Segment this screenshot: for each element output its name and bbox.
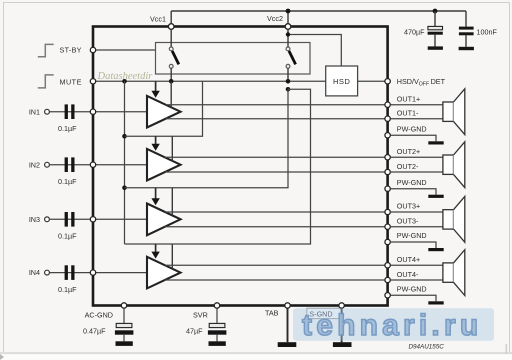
node junction rail / switch1 — [169, 79, 174, 84]
svg-text:D94AU155C: D94AU155C — [409, 344, 445, 351]
node input ST-BY step waveform — [38, 44, 54, 56]
wire OUT4- line — [165, 279, 385, 281]
wire PW-GND 2 to ground — [391, 189, 437, 195]
svg-text:OUT4+: OUT4+ — [397, 255, 420, 264]
svg-text:PW-GND: PW-GND — [397, 125, 427, 134]
wire mute chain vertical — [124, 81, 126, 244]
wire PW-GND 3 to ground — [391, 242, 437, 248]
switch SW1 from Vcc1 — [169, 29, 179, 81]
switch box (st-by switches) — [156, 43, 311, 75]
svg-text:IN4: IN4 — [29, 268, 40, 277]
wire OUT3- line — [165, 226, 385, 228]
capacitor 47uF on SVR — [186, 308, 226, 341]
node junction second branch — [286, 87, 291, 92]
wire ch2 feeder — [125, 81, 203, 136]
capacitor 0.1uF input C4 — [58, 265, 77, 294]
capacitor 0.1uF input C3 — [58, 212, 77, 241]
wire bias into A3 — [171, 188, 173, 216]
wire mute arrow into A2 — [155, 136, 157, 144]
svg-text:47µF: 47µF — [186, 327, 203, 336]
wire speaker 3 - — [391, 226, 443, 228]
wire Vcc2 riser — [287, 11, 289, 24]
svg-text:tehnari.ru: tehnari.ru — [302, 309, 482, 342]
wire mute arrow into A1 — [155, 81, 157, 91]
svg-text:OUT1+: OUT1+ — [397, 94, 420, 103]
wire IN2 input — [50, 164, 147, 166]
ground S-GND — [333, 342, 352, 347]
svg-text:OUT3+: OUT3+ — [397, 202, 420, 211]
svg-text:100nF: 100nF — [477, 27, 498, 36]
wire OUT4+ line — [165, 264, 385, 266]
wire TAB to ground — [287, 308, 289, 342]
wire speaker 4 + — [391, 264, 443, 266]
speaker LS1 — [443, 89, 465, 135]
wire OUT1+ line — [166, 104, 385, 106]
speaker LS3 — [443, 196, 465, 242]
wire bias into A4 — [171, 244, 173, 269]
wire speaker 2 + — [391, 156, 443, 158]
HSD block — [326, 66, 358, 96]
ground under 470uF — [428, 46, 443, 49]
ground TAB — [278, 342, 297, 347]
speaker LS4 — [443, 250, 465, 296]
svg-text:OUT4-: OUT4- — [397, 270, 419, 279]
svg-text:0.47µF: 0.47µF — [83, 327, 106, 336]
capacitor 470uF supply electrolytic — [404, 11, 443, 46]
wire IN1 input — [50, 111, 147, 113]
svg-text:OUT1-: OUT1- — [397, 109, 419, 118]
node junction mute rail / mute chain — [122, 79, 127, 84]
wire OUT2- line — [165, 171, 385, 173]
node junction mute chain ch2 — [122, 134, 127, 139]
wire ST-BY to switch box — [96, 49, 156, 51]
svg-text:Datasheetdir: Datasheetdir — [97, 71, 154, 82]
wire OUT3+ line — [165, 211, 385, 213]
node pin IN2 on IC — [90, 162, 95, 167]
switch SW2 from Vcc2 — [286, 29, 296, 81]
wire speaker 3 + — [391, 211, 443, 213]
svg-text:IN3: IN3 — [29, 215, 40, 224]
svg-text:PW-GND: PW-GND — [397, 285, 427, 294]
wire speaker 1 - — [391, 118, 443, 120]
svg-text:HSD: HSD — [333, 77, 350, 86]
wire HSD to pin — [358, 80, 385, 82]
node pin IN3 on IC — [90, 217, 95, 222]
wire top Vcc rail — [171, 10, 466, 12]
node pin IN4 on IC — [90, 270, 95, 275]
svg-text:Vcc1: Vcc1 — [150, 15, 166, 24]
wire speaker 2 - — [391, 171, 443, 173]
wire PW-GND 4 to ground — [391, 295, 437, 301]
node input MUTE step waveform — [38, 75, 54, 88]
wire OUT2+ line — [165, 156, 385, 158]
capacitor 0.1uF input C1 — [58, 104, 77, 133]
wire mute arrow into A4 — [155, 244, 157, 252]
ground under 47uF — [209, 341, 226, 346]
svg-text:0.1µF: 0.1µF — [58, 232, 77, 241]
svg-text:470µF: 470µF — [404, 27, 425, 36]
op-amp A4 power amplifier — [147, 257, 181, 289]
op-amp A3 power amplifier — [147, 204, 181, 236]
svg-text:AC-GND: AC-GND — [85, 310, 113, 319]
svg-text:PW-GND: PW-GND — [397, 178, 427, 187]
svg-text:IN2: IN2 — [29, 160, 40, 169]
node junction rail / switch2 — [286, 79, 291, 84]
wire ch3 feeder — [125, 89, 289, 188]
wire MUTE rail to HSD — [96, 80, 326, 82]
node pin S-GND — [307, 308, 342, 318]
wire bias into A1 — [170, 81, 172, 107]
ground under 100nF — [459, 47, 474, 50]
wire OUT1- line — [166, 118, 385, 120]
IC body TDA7384A outline — [93, 27, 388, 306]
wire PW-GND 1 to ground — [391, 135, 437, 141]
wire ch4 feeder — [125, 89, 311, 244]
ground PW-GND 3 — [428, 248, 443, 251]
svg-text:0.1µF: 0.1µF — [58, 177, 77, 186]
svg-text:Vcc2: Vcc2 — [267, 14, 283, 23]
wire Vcc2 to HSD feed — [288, 29, 341, 66]
node junction Vcc2 feed — [286, 32, 290, 36]
wire IN4 input — [50, 272, 147, 274]
svg-text:0.1µF: 0.1µF — [58, 285, 77, 294]
ground PW-GND 4 — [428, 301, 443, 304]
svg-text:OUT2-: OUT2- — [397, 162, 419, 171]
svg-text:IN1: IN1 — [29, 107, 40, 116]
op-amp A2 power amplifier — [147, 149, 181, 181]
ground PW-GND 1 — [428, 141, 443, 144]
ground under 0.47uF — [116, 341, 133, 346]
svg-text:0.1µF: 0.1µF — [58, 124, 77, 133]
node junction on top rail above Vcc2 — [286, 9, 291, 14]
capacitor 0.1uF input C2 — [58, 157, 77, 186]
svg-text:MUTE: MUTE — [60, 78, 82, 87]
svg-text:OUT3-: OUT3- — [397, 217, 419, 226]
speaker LS2 — [443, 142, 465, 188]
wire S-GND to ground — [341, 308, 343, 342]
node junction on top rail above 470uF — [433, 9, 438, 14]
svg-text:ST-BY: ST-BY — [60, 46, 82, 55]
svg-text:OUT2+: OUT2+ — [397, 147, 420, 156]
node junction mute chain ch3 — [122, 186, 127, 191]
wire speaker 4 - — [391, 279, 443, 281]
node pin IN1 on IC — [90, 109, 95, 114]
wire IN3 input — [50, 218, 147, 220]
svg-text:TAB: TAB — [265, 309, 279, 318]
svg-text:HSD/VOFF DET: HSD/VOFF DET — [397, 77, 446, 88]
wire speaker 1 + — [391, 104, 443, 106]
svg-text:PW-GND: PW-GND — [397, 231, 427, 240]
watermark tehnari.ru — [293, 308, 494, 342]
wire Vcc1 riser — [170, 11, 172, 24]
op-amp A1 power amplifier — [147, 96, 181, 128]
wire mute arrow into A3 — [155, 188, 157, 199]
svg-text:SVR: SVR — [193, 310, 208, 319]
ground PW-GND 2 — [428, 195, 443, 198]
wire bias into A2 — [171, 136, 173, 161]
capacitor 100nF supply bypass — [459, 11, 498, 47]
capacitor 0.47uF on AC-GND — [83, 308, 133, 341]
